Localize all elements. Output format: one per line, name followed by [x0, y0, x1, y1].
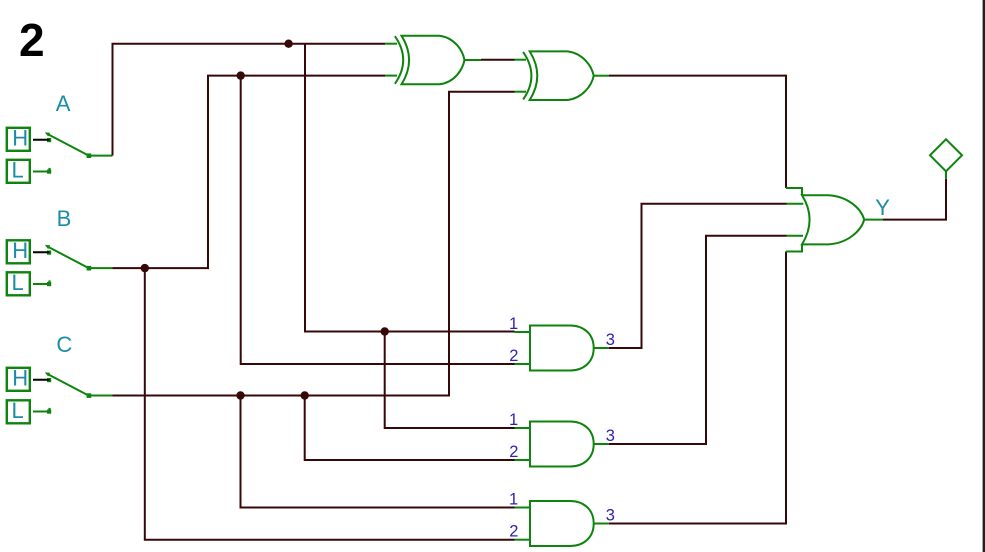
or gate U6 pin4 stub: [786, 244, 802, 251]
and gate U4 body: [530, 422, 594, 467]
xor gate U2 body: [530, 51, 594, 100]
and gate U5 body: [530, 501, 594, 546]
switch SW-B blade arrowhead: [45, 245, 50, 249]
switch SW-C L contact lead: [33, 411, 48, 413]
svg-text:H: H: [12, 365, 28, 390]
or gate U6 body: [802, 195, 864, 244]
output connector stub: [945, 170, 947, 178]
switch SW-C H contact pad: [47, 378, 51, 382]
svg-text:H: H: [12, 238, 28, 263]
switch SW-B L terminal box: [7, 272, 30, 295]
svg-text:L: L: [12, 270, 24, 295]
or gate U6 pin1 stub: [786, 188, 802, 195]
switch SW-C common pad: [87, 393, 92, 398]
switch SW-A L contact nub: [48, 168, 50, 170]
switch SW-A L contact pad: [47, 170, 51, 174]
switch SW-A common pad: [87, 153, 92, 158]
switch SW-C H contact lead (black): [33, 379, 50, 381]
svg-text:L: L: [12, 398, 24, 423]
switch SW-A L contact lead: [33, 171, 48, 173]
svg-text:A: A: [56, 91, 71, 116]
junction dot net C at x=240: [236, 391, 244, 399]
svg-text:Y: Y: [875, 195, 890, 220]
wire net B branch to AND3 pin2: [145, 268, 515, 540]
switch SW-B L contact lead: [33, 283, 48, 285]
switch SW-A blade arrowhead: [45, 132, 50, 136]
xor gate U2 input stub 1: [515, 59, 527, 61]
junction dot net B at x=145: [141, 264, 149, 272]
wire net B branch to AND1 pin2: [241, 76, 515, 364]
switch SW-C H terminal box: [7, 368, 30, 391]
wire A: switch A common up: [113, 44, 386, 156]
svg-text:3: 3: [606, 507, 615, 525]
switch SW-B common lead: [89, 267, 113, 269]
xor gate U1 output stub: [465, 59, 482, 61]
or gate U6 output stub: [864, 219, 883, 221]
switch SW-A common lead: [89, 155, 113, 157]
switch SW-B L contact nub: [48, 280, 50, 282]
junction dot net C at x=305: [301, 391, 309, 399]
wire C: switch C common to XOR2 pin2: [113, 92, 515, 396]
xor gate U2 output stub: [594, 75, 609, 77]
or gate U6 pin2 stub: [787, 203, 804, 205]
wire AND1 out to OR pin2: [609, 204, 787, 348]
wire OR out to output connector: [883, 179, 946, 220]
svg-text:3: 3: [606, 331, 615, 349]
svg-text:L: L: [12, 157, 24, 182]
svg-text:2: 2: [509, 347, 518, 365]
wire XOR2 out to OR pin1: [609, 76, 786, 188]
wire net A branch to AND2 pin1: [385, 332, 515, 429]
wire net C branch to AND2 pin2: [305, 396, 515, 461]
svg-text:B: B: [57, 206, 72, 231]
svg-text:3: 3: [606, 427, 615, 445]
wire B: switch B common to XOR1 pin2: [113, 76, 386, 269]
and gate U3 output stub: [594, 347, 609, 349]
svg-text:C: C: [56, 332, 72, 357]
and gate U5 pin1 stub: [515, 507, 531, 509]
junction dot net B at x=240: [237, 71, 245, 79]
svg-text:H: H: [12, 125, 28, 150]
switch SW-B L contact pad: [47, 282, 51, 286]
and gate U3 pin1 stub: [515, 331, 531, 333]
svg-text:2: 2: [509, 443, 518, 461]
and gate U4 pin1 stub: [515, 427, 531, 429]
svg-text:2: 2: [19, 14, 45, 66]
window border right edge: [983, 0, 985, 552]
wire XOR1 out to XOR2 in: [481, 59, 515, 61]
switch SW-A L terminal box: [7, 160, 30, 183]
wire net C branch to AND3 pin1: [241, 396, 515, 508]
xor gate U2 input stub 2: [515, 91, 527, 93]
xor gate U1 body: [402, 36, 465, 85]
switch SW-C blade: [48, 374, 89, 396]
switch SW-C L terminal box: [7, 400, 30, 423]
switch SW-B blade: [48, 247, 89, 269]
output connector diamond: [930, 139, 962, 171]
or gate U6 pin3 stub: [787, 235, 804, 237]
xor gate U2 outer arc: [523, 52, 531, 100]
svg-text:2: 2: [509, 523, 518, 541]
wire net A branch down at x=305: [305, 44, 515, 332]
switch SW-B common pad: [87, 266, 92, 271]
and gate U4 output stub: [594, 443, 609, 445]
switch SW-B H terminal box: [7, 240, 30, 263]
svg-text:1: 1: [509, 491, 518, 509]
wire AND3 out to OR pin4: [609, 252, 786, 524]
switch SW-A H contact lead (black): [33, 139, 50, 141]
wire AND2 out to OR pin3: [609, 236, 787, 444]
and gate U5 pin2 stub: [515, 539, 531, 541]
svg-text:1: 1: [509, 315, 518, 333]
switch SW-A H terminal box: [7, 128, 30, 151]
and gate U3 pin2 stub: [515, 363, 531, 365]
junction dot net A to AND2 branch: [381, 327, 389, 335]
svg-text:1: 1: [509, 411, 518, 429]
switch SW-C L contact nub: [48, 408, 50, 410]
switch SW-A blade: [48, 134, 89, 156]
switch SW-A H contact pad: [47, 138, 51, 142]
and gate U4 pin2 stub: [515, 459, 531, 461]
switch SW-B H contact pad: [47, 251, 51, 255]
switch SW-B H contact lead (black): [33, 251, 50, 253]
switch SW-C L contact pad: [47, 410, 51, 414]
and gate U5 output stub: [594, 523, 609, 525]
and gate U3 body: [530, 326, 594, 371]
xor gate U1 input stub 2: [385, 75, 397, 77]
switch SW-C common lead: [89, 395, 113, 397]
junction dot on net A: [284, 40, 292, 48]
switch SW-C blade arrowhead: [45, 372, 50, 376]
xor gate U1 outer arc: [395, 36, 403, 84]
xor gate U1 input stub 1: [385, 43, 397, 45]
